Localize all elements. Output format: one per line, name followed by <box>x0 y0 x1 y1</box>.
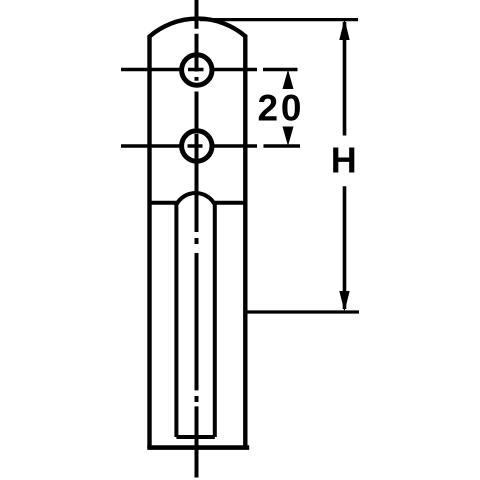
wire: hole H1 horizontal centerline <box>121 68 298 72</box>
slot: right inner edge <box>213 204 217 437</box>
slot: left inner edge <box>174 204 178 437</box>
dimension H: dimension line <box>343 22 347 309</box>
shoulder line right <box>215 201 246 205</box>
slot: bottom edge <box>176 435 214 439</box>
svg-text:H: H <box>331 140 357 181</box>
dimension H: bottom extension line <box>245 310 359 313</box>
wire: hole H2 horizontal centerline <box>121 144 300 148</box>
dimension H: top extension line <box>200 18 358 21</box>
slot: rounded top arc <box>176 193 214 204</box>
dimension 20: lower arrow <box>283 127 294 147</box>
hole H2 (lower) <box>182 131 212 161</box>
dimension H: top arrow <box>339 19 349 40</box>
wire: main vertical centerline (dash-dot) <box>195 0 199 478</box>
dimension H: bottom arrow <box>339 291 349 312</box>
part outline: body with rounded top <box>150 19 246 448</box>
dimension 20: upper arrow <box>283 70 294 90</box>
hole H1 (upper) <box>182 55 212 85</box>
svg-text:20: 20 <box>258 88 302 129</box>
shoulder line left <box>150 201 177 205</box>
part outline: bottom edge <box>147 445 249 450</box>
